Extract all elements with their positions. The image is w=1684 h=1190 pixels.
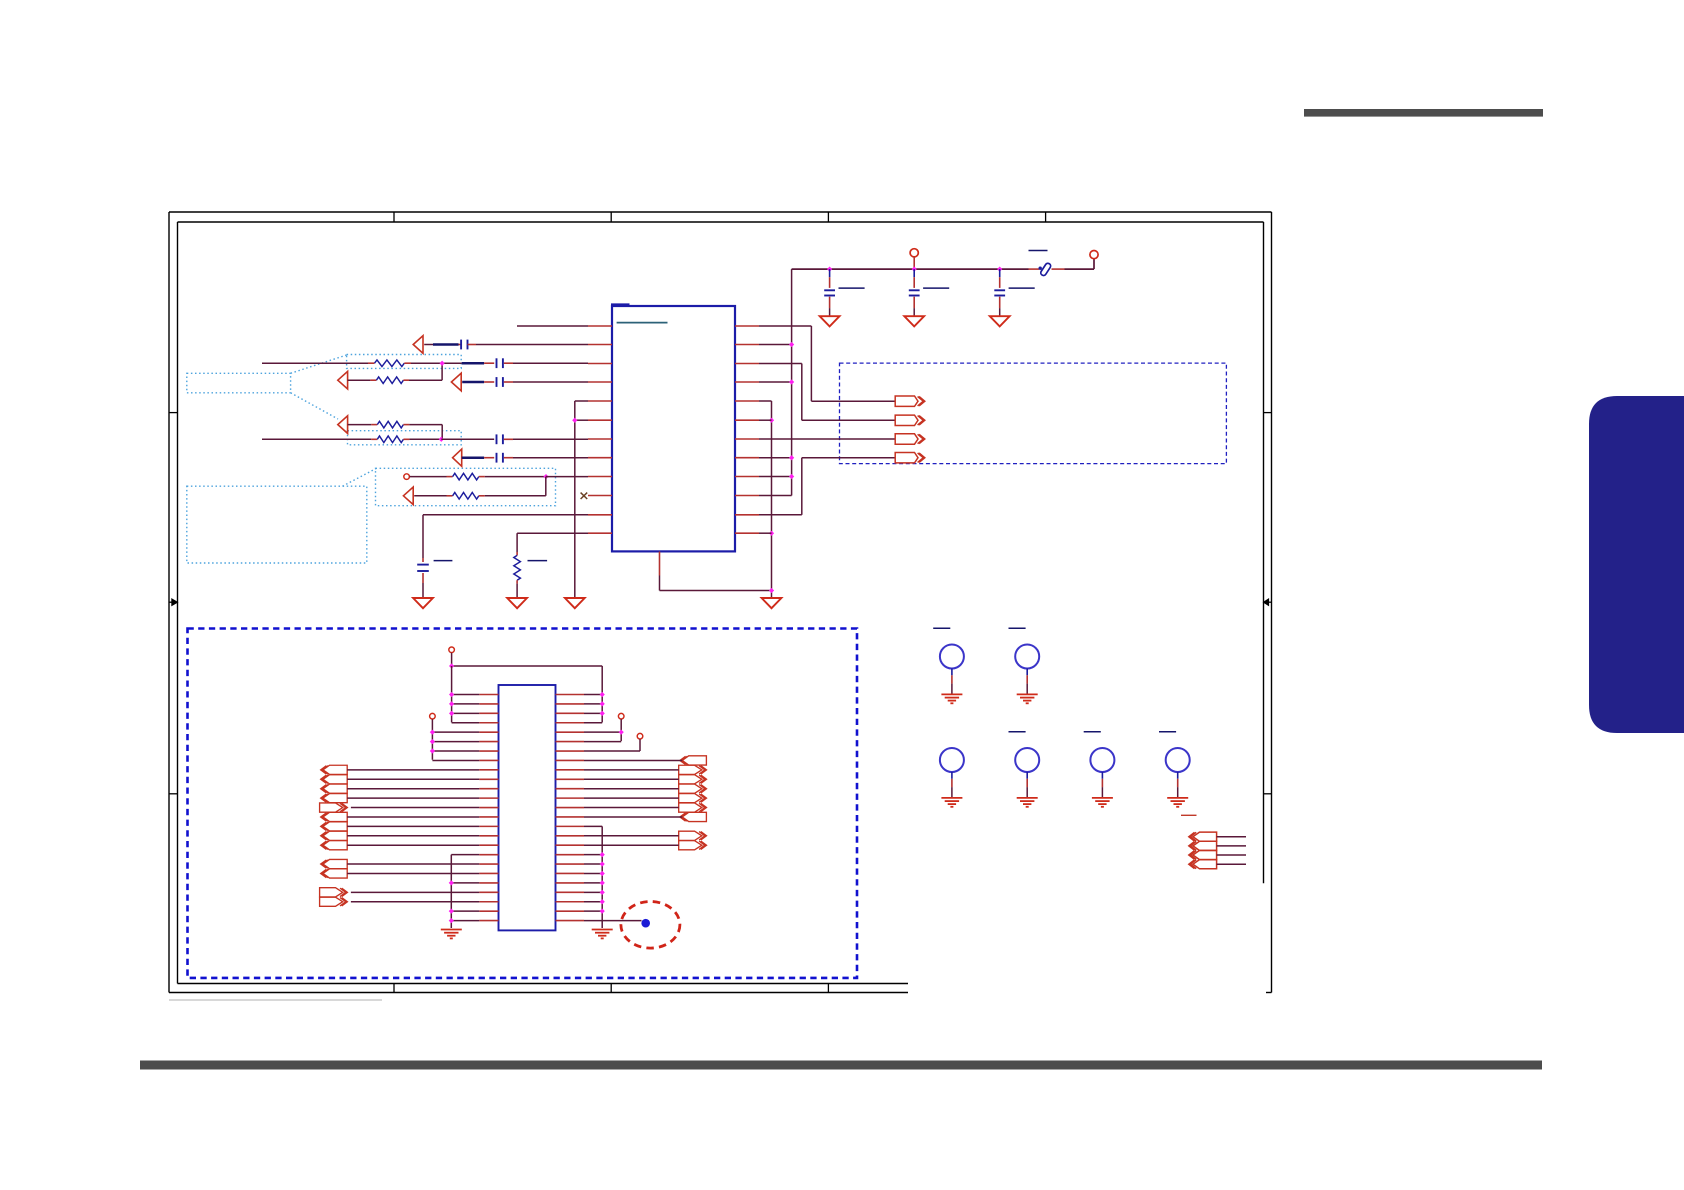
frame zone ticks left bbox=[169, 413, 178, 794]
junction left row7 bbox=[430, 748, 435, 753]
harness arrow left row9 (in) bbox=[321, 765, 348, 774]
wire U2 right row5 bbox=[584, 731, 621, 733]
wire BR1 bbox=[1217, 836, 1246, 838]
wire U2 left row25 bbox=[451, 920, 479, 922]
wire U2 right row12 bbox=[584, 797, 679, 799]
wire R4 to junction bbox=[403, 438, 441, 440]
wire loop over U2 bbox=[452, 666, 603, 722]
ground under C top3 bbox=[990, 316, 1010, 326]
harness arrow left row13 (out) bbox=[320, 803, 348, 812]
ground under R7 bbox=[507, 598, 527, 608]
wire row8 navy segment bbox=[462, 456, 495, 459]
wire row7 to cap bbox=[441, 438, 494, 440]
harness arrow right row16 (out) bbox=[679, 831, 707, 840]
wire U2 left row9 bbox=[347, 769, 479, 771]
junction row9 bbox=[543, 474, 548, 479]
header pin circle right bbox=[1090, 251, 1098, 259]
wire U2 right row23 bbox=[584, 901, 602, 903]
junction row7 bbox=[439, 437, 444, 442]
wire U2 left row23 bbox=[351, 901, 479, 903]
header circle P2 left bbox=[430, 713, 436, 759]
junction right row22 bbox=[600, 890, 605, 895]
ground under MH2 bbox=[1017, 694, 1038, 703]
wire U2 right row22 bbox=[584, 891, 602, 893]
frame zone ticks bottom bbox=[394, 984, 828, 993]
wire U2 right row1 bbox=[584, 694, 602, 696]
wire row2 navy segment bbox=[424, 344, 461, 346]
header circle P3 right bbox=[618, 713, 624, 741]
wire U1 pin5 to ground rail bbox=[575, 401, 588, 598]
wire U2 left row6 bbox=[432, 741, 479, 743]
junction gnd rail pin6r bbox=[769, 418, 774, 423]
wire U2 left row20 bbox=[347, 872, 479, 874]
wire row3 to pin bbox=[504, 362, 588, 364]
wire BR3 bbox=[1217, 854, 1246, 856]
wire U2 left row16 bbox=[347, 835, 479, 837]
wire U2 right row2 bbox=[584, 703, 602, 705]
capacitor C row2 bbox=[461, 340, 467, 350]
wire U2 left row19 bbox=[347, 863, 479, 865]
ground under C bottom-left bbox=[413, 598, 433, 608]
right navy side tab bbox=[1589, 396, 1684, 733]
mounting hole MH4 bbox=[1015, 748, 1039, 798]
ground rail U2 left bbox=[450, 855, 452, 928]
harness arrow left row19 (in) bbox=[321, 859, 348, 868]
U2 left pin stubs bbox=[479, 695, 498, 921]
wire U2 left row4 bbox=[452, 722, 480, 724]
wire U2 right row18 bbox=[584, 854, 602, 856]
wire U2 right row13 bbox=[584, 807, 679, 809]
callout leader A1 bbox=[291, 355, 347, 373]
wire row2 to pin bbox=[468, 344, 589, 346]
junction rail C top2 bbox=[912, 266, 917, 271]
wire row3 navy segment bbox=[442, 362, 494, 364]
wire U1 pin8 right bbox=[759, 457, 792, 459]
fuse F1 bbox=[1039, 262, 1052, 276]
junction right row2 bbox=[600, 701, 605, 706]
ground under MH5 bbox=[1092, 798, 1113, 807]
wire U2 right row15 bbox=[584, 825, 602, 827]
harness arrow left row15 (in) bbox=[321, 822, 348, 831]
mounting hole MH5 bbox=[1090, 748, 1114, 798]
wire U2 right row11 bbox=[584, 788, 679, 790]
junction left row24 bbox=[449, 909, 454, 914]
capacitor C row4 bbox=[497, 377, 503, 387]
label dash cap bottom-left bbox=[434, 560, 453, 562]
harness arrow left row22 (out) bbox=[320, 888, 348, 897]
output arrow 4 bbox=[895, 453, 925, 463]
junction gnd rail bottom bbox=[769, 588, 774, 593]
junction left row21 bbox=[449, 880, 454, 885]
wire R5 to junction bbox=[479, 476, 546, 478]
wire arrow to R3 bbox=[348, 424, 378, 426]
wire U1 pin6 right bbox=[759, 419, 772, 421]
wire U1 bottom pin to ground net bbox=[660, 576, 772, 591]
wire U1 pin6 bbox=[575, 419, 588, 421]
junction left row3 bbox=[449, 711, 454, 716]
wire arrow to R2 bbox=[348, 379, 377, 381]
junction left row5 bbox=[430, 730, 435, 735]
wire R7 to ground bbox=[516, 580, 518, 597]
wire U1 pin2 right bbox=[759, 344, 792, 346]
harness arrow left row17 (in) bbox=[321, 841, 348, 850]
wire row3 from left bbox=[262, 362, 375, 364]
junction rail pin9 bbox=[789, 474, 794, 479]
wire U2 left row5 bbox=[432, 731, 479, 733]
junction pin6 gnd rail bbox=[572, 418, 577, 423]
wire U2 left row13 bbox=[351, 807, 479, 809]
wire U1 pin12 down bbox=[517, 533, 588, 555]
wire U2 right row7 bbox=[584, 750, 640, 752]
harness arrow BR3 (in) bbox=[1189, 850, 1217, 859]
wire U2 right row20 bbox=[584, 872, 602, 874]
harness arrow right row14 (in) bbox=[680, 812, 707, 821]
page top-right gray bar bbox=[1304, 109, 1543, 117]
frame mid arrow right bbox=[1264, 599, 1272, 606]
wire R3 down to junction bbox=[403, 425, 442, 440]
resistor R4 bbox=[377, 436, 403, 443]
label dash MH2 bbox=[1009, 627, 1026, 629]
power rail vertical right of U1 bbox=[791, 269, 793, 495]
header pin circle mid bbox=[910, 249, 918, 269]
wire cap to ground bbox=[422, 573, 424, 598]
wire U1 pin1 left bbox=[517, 325, 588, 327]
wire U2 right row17 bbox=[584, 844, 679, 846]
mounting hole MH2 bbox=[1015, 645, 1039, 695]
wire U1 pin4 right bbox=[759, 381, 792, 383]
label dash MH5 bbox=[1084, 731, 1101, 733]
callout box around R4 bbox=[348, 431, 462, 445]
junction right row3 bbox=[600, 711, 605, 716]
wire vertical P1 left bbox=[451, 666, 453, 722]
wire U2 left row7 bbox=[432, 750, 479, 752]
U1 right pin stubs bbox=[735, 326, 759, 533]
wire U2 right row16 bbox=[584, 835, 679, 837]
junction right row24 bbox=[600, 909, 605, 914]
ground under right rail bbox=[762, 598, 782, 608]
label dash fuse bbox=[1029, 250, 1048, 252]
harness arrow left row23 (out) bbox=[320, 897, 348, 906]
wire U2 left row10 bbox=[347, 778, 479, 780]
highlight ellipse red dashed bbox=[621, 902, 680, 949]
wire U2 left row22 bbox=[351, 891, 479, 893]
label dash C top3 bbox=[1009, 287, 1035, 289]
wire U2 right row19 bbox=[584, 863, 602, 865]
junction rail C top1 bbox=[827, 266, 832, 271]
ground U2 left bbox=[441, 930, 462, 939]
wire row7 from left bbox=[262, 438, 377, 440]
big dashed module box bbox=[188, 629, 858, 978]
harness arrow right row8 (in) bbox=[680, 756, 707, 765]
wire U1 pin1 to arrow1 bbox=[759, 326, 895, 401]
harness arrow left row11 (in) bbox=[321, 784, 348, 793]
wire R2 up to junction bbox=[403, 363, 442, 380]
harness arrow right row9 (out) bbox=[679, 765, 707, 774]
wire U1 pin10 right bbox=[759, 495, 792, 497]
U1 left pin stubs bbox=[588, 326, 612, 533]
ground rail U2 right bbox=[601, 826, 603, 928]
capacitor C row7 bbox=[497, 434, 503, 444]
header circle P4 right bbox=[637, 733, 643, 751]
wire U2 left row8 bbox=[432, 759, 479, 761]
IC U2 body bbox=[499, 685, 556, 930]
output arrow 3 bbox=[895, 434, 925, 444]
wire U2 left row12 bbox=[347, 797, 479, 799]
harness arrow left row16 (in) bbox=[321, 831, 348, 840]
ground under MH6 bbox=[1167, 798, 1188, 807]
junction left row1 bbox=[449, 692, 454, 697]
callout box around R5 R6 bbox=[376, 468, 556, 505]
wire U2 left row21 bbox=[451, 882, 479, 884]
harness arrow BR4 (in) bbox=[1189, 860, 1217, 869]
ground under MH3 bbox=[941, 798, 962, 807]
wire U2 left row18 bbox=[451, 854, 479, 856]
mounting hole MH3 bbox=[940, 748, 964, 798]
harness arrow right row13 (out) bbox=[679, 803, 707, 812]
output arrow 1 bbox=[895, 396, 925, 406]
junction left row25 bbox=[449, 918, 454, 923]
label dash R7 bbox=[528, 560, 548, 562]
capacitor C row8 bbox=[497, 453, 503, 463]
resistor R1 bbox=[375, 360, 405, 367]
ground under MH1 bbox=[941, 694, 962, 703]
junction rail pin4 bbox=[789, 379, 794, 384]
resistor R3 bbox=[377, 421, 403, 428]
ground U2 right bbox=[592, 930, 613, 939]
label dash C top1 bbox=[839, 287, 865, 289]
U2 right pin stubs bbox=[556, 695, 585, 921]
harness arrow left row14 (in) bbox=[321, 812, 348, 821]
module ground point dot bbox=[641, 919, 650, 928]
wire U1 pin3 to arrow2 bbox=[759, 364, 895, 421]
wire U1 pin5 right bbox=[759, 400, 772, 402]
wire U2 right row3 bbox=[584, 712, 602, 714]
wire U2 left row1 bbox=[452, 694, 480, 696]
harness arrow left row20 (in) bbox=[321, 869, 348, 878]
harness arrow left row10 (in) bbox=[321, 775, 348, 784]
junction left row2 bbox=[449, 701, 454, 706]
harness arrow right row10 (out) bbox=[679, 775, 707, 784]
frame zone ticks right bbox=[1264, 413, 1272, 794]
label dash MH4 bbox=[1009, 731, 1026, 733]
wire circle to R5 bbox=[410, 476, 453, 478]
capacitor C top1 bbox=[824, 269, 835, 316]
wire U2 right row14 bbox=[584, 816, 682, 818]
IC U1 body bbox=[611, 305, 735, 551]
wire U2 left row3 bbox=[452, 712, 480, 714]
wire U2 left row11 bbox=[347, 788, 479, 790]
connector arrow row8 bbox=[453, 449, 462, 466]
junction right row21 bbox=[600, 880, 605, 885]
wire U2 right row21 bbox=[584, 882, 602, 884]
wire row4 to pin bbox=[504, 381, 588, 383]
wire U2 right row8 bbox=[584, 759, 682, 761]
resistor R2 bbox=[376, 377, 403, 384]
wire fuse to header pin bbox=[1052, 259, 1095, 269]
connector arrow row R3 bbox=[338, 416, 348, 434]
wire R1 to junction bbox=[404, 362, 442, 364]
capacitor C bottom-left bbox=[417, 565, 429, 571]
mounting hole MH1 bbox=[940, 645, 964, 695]
junction rail C top3 bbox=[997, 266, 1002, 271]
junction right row23 bbox=[600, 899, 605, 904]
frame zone ticks top bbox=[394, 212, 1046, 222]
U1 bottom pin stub bbox=[659, 552, 661, 576]
sheet frame outer border bbox=[169, 212, 1272, 993]
junction right row1 bbox=[600, 692, 605, 697]
connector arrow row R2 bbox=[338, 371, 348, 389]
capacitor C top2 bbox=[909, 269, 920, 316]
junction right row20 bbox=[600, 871, 605, 876]
frame bottom shadow line bbox=[169, 999, 382, 1001]
wire U2 left row2 bbox=[452, 703, 480, 705]
resistor R6 bbox=[453, 493, 479, 500]
callout leader B1 bbox=[343, 468, 377, 486]
frame mid arrow left bbox=[169, 599, 178, 606]
wire U2 right row24 bbox=[584, 910, 602, 912]
junction right row18 bbox=[600, 852, 605, 857]
ground under MH4 bbox=[1017, 798, 1038, 807]
harness arrow left row12 (in) bbox=[321, 794, 348, 803]
wire U1 pin11 to arrow4 bbox=[759, 458, 895, 515]
output arrow 2 bbox=[895, 415, 925, 425]
label dash C top2 bbox=[923, 287, 949, 289]
callout box B (net names left lower) bbox=[187, 486, 367, 563]
resistor R7 vertical bbox=[514, 555, 521, 580]
sheet frame inner border bbox=[178, 222, 1264, 984]
wire U1 pin11 down bbox=[423, 515, 588, 562]
no-connect X U1 pin10 bbox=[581, 493, 588, 499]
junction left row6 bbox=[430, 739, 435, 744]
dashed net-group box right of U1 bbox=[840, 363, 1227, 464]
ground under C top1 bbox=[820, 316, 840, 326]
ground rail right of U1 bbox=[771, 401, 773, 598]
wire U2 right row4 bbox=[584, 722, 602, 724]
junction rail pin8 bbox=[789, 455, 794, 460]
junction loop top bbox=[449, 663, 454, 668]
wire row7 to pin bbox=[504, 438, 588, 440]
wire U2 left row14 bbox=[347, 816, 479, 818]
capacitor C row3 bbox=[497, 358, 503, 368]
wire row4 navy segment bbox=[462, 381, 494, 384]
junction right row19 bbox=[600, 861, 605, 866]
power rail horizontal bbox=[792, 268, 1039, 270]
ground under U1 left rail bbox=[565, 598, 585, 608]
wire U1 pin12 right bbox=[759, 532, 772, 534]
harness arrow right row12 (out) bbox=[679, 794, 707, 803]
test pin circle row9 bbox=[404, 474, 410, 480]
wire U2 right row6 bbox=[584, 741, 621, 743]
wire U2 right row10 bbox=[584, 778, 679, 780]
wire BR2 bbox=[1217, 845, 1246, 847]
harness arrow right row17 (out) bbox=[679, 841, 707, 850]
wire arrow to R6 bbox=[414, 495, 452, 497]
wire row9 to pin bbox=[546, 476, 588, 478]
wire U1 pin7 to arrow3 bbox=[759, 438, 895, 440]
junction row3 bbox=[439, 361, 444, 366]
page bottom gray bar bbox=[140, 1061, 1542, 1070]
junction gnd rail pin12r bbox=[769, 531, 774, 536]
wire U2 left row24 bbox=[451, 910, 479, 912]
harness arrow BR2 (in) bbox=[1189, 841, 1217, 850]
wire U2 left row15 bbox=[347, 825, 479, 827]
wire U2 right row9 bbox=[584, 769, 679, 771]
header circle P1 top-left bbox=[449, 647, 455, 666]
capacitor C top3 bbox=[994, 269, 1005, 316]
connector arrow row R6 bbox=[403, 487, 413, 505]
mounting hole MH6 bbox=[1166, 748, 1190, 798]
connector arrow row2 bbox=[413, 336, 423, 354]
wire to module ground point bbox=[584, 920, 642, 922]
harness arrow BR1 (in) bbox=[1189, 832, 1217, 841]
wire U1 pin9 right bbox=[759, 476, 792, 478]
wire R6 up to junction bbox=[479, 477, 546, 496]
wire U2 left row17 bbox=[347, 844, 479, 846]
callout box around R1 bbox=[347, 355, 462, 369]
junction rail pin2 bbox=[789, 342, 794, 347]
callout leader A2 bbox=[291, 393, 338, 419]
callout box A (net names left upper) bbox=[187, 373, 291, 393]
wire row8 to pin bbox=[504, 457, 588, 459]
resistor R5 bbox=[453, 473, 479, 480]
junction right row5 bbox=[619, 730, 624, 735]
label dash MH6 bbox=[1159, 731, 1176, 733]
harness arrow right row11 (out) bbox=[679, 784, 707, 793]
label dash MH1 bbox=[933, 627, 950, 629]
wire BR4 bbox=[1217, 863, 1246, 865]
label dash harness BR bbox=[1181, 814, 1197, 816]
connector arrow row4 bbox=[451, 373, 461, 391]
ground under C top2 bbox=[904, 316, 924, 326]
